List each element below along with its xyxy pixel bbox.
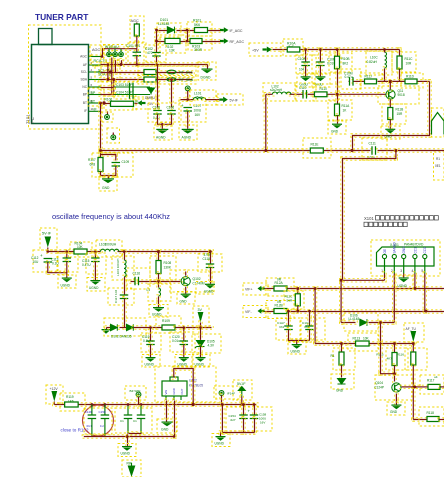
wire osc col a — [123, 250, 126, 262]
svg-text:C116: C116 — [133, 272, 141, 276]
box around R107 C109 — [92, 153, 133, 177]
box around edge port VIF — [434, 151, 444, 180]
svg-text:R1: R1 — [436, 157, 440, 161]
wire Q104 emitter right — [400, 385, 417, 388]
svg-text:AGC: AGC — [80, 54, 88, 58]
junction bottom rail U102pin — [173, 435, 176, 438]
box around C10M — [341, 69, 361, 89]
svg-text:VIF-: VIF- — [245, 310, 252, 314]
resistor R11J body — [365, 79, 377, 84]
tuner pin 8 (BT) — [89, 102, 101, 104]
svg-text:R12B: R12B — [275, 304, 284, 308]
junction Q104 row x394.5 — [393, 342, 396, 345]
wire TP3 to L101 row — [186, 89, 189, 101]
svg-text:OE: OE — [383, 249, 387, 254]
wire pin6 row — [99, 93, 116, 96]
svg-text:10R: 10R — [406, 62, 413, 66]
wire R101 to port — [201, 29, 222, 32]
selection box around tuner Z101 — [29, 25, 102, 129]
capacitor C110 body — [303, 90, 307, 99]
wire caps join circle rail — [127, 434, 129, 437]
svg-text:AGND: AGND — [182, 136, 192, 140]
box around SCL-TU SDA-TU labels — [95, 66, 120, 82]
wire osc rail a — [46, 250, 76, 253]
wire VIF- b — [286, 310, 444, 313]
wire C10A bottom — [304, 64, 307, 78]
transistor Q102 body — [181, 277, 190, 286]
tuner pin 6 (NC) — [89, 86, 101, 88]
svg-text:0R: 0R — [277, 300, 282, 304]
box around TP2 — [107, 128, 120, 143]
box around L102 osc — [96, 240, 122, 257]
wire pin4 SDA row — [99, 78, 194, 81]
svg-text:UGND: UGND — [215, 442, 225, 446]
diode D102 body — [148, 87, 155, 95]
wire X101 pin2 lead — [393, 272, 396, 324]
svg-text:C110: C110 — [299, 86, 307, 90]
wire AGC column — [136, 23, 138, 25]
sheet port IF OUT (house) — [432, 113, 444, 135]
capacitor C1C4 body — [305, 326, 314, 330]
box around C116 — [127, 268, 150, 289]
capacitor C154 body — [239, 415, 248, 419]
junction x156 y30 — [155, 29, 158, 32]
wire C121 C122 bottom join — [127, 432, 143, 435]
wire L10C bottom — [383, 67, 386, 83]
wire C1A7 bottom — [287, 328, 290, 342]
junction x187 y30 — [186, 29, 189, 32]
junction rail C10A — [304, 48, 307, 51]
wire R115 bottom — [393, 364, 396, 383]
junction pin1 vertical — [340, 279, 343, 282]
svg-text:GND: GND — [331, 130, 339, 134]
resistor R108 body — [156, 261, 161, 274]
wire R115 top — [393, 342, 396, 354]
svg-text:Q104: Q104 — [375, 381, 383, 385]
capacitor C115 body — [91, 258, 100, 262]
resistor R119 body — [65, 402, 79, 407]
junction C106 top — [170, 78, 173, 81]
box around R12B — [266, 301, 294, 319]
wire C119 top — [149, 326, 152, 342]
ground symbol Q102 — [181, 294, 191, 299]
wire pin7 row — [99, 102, 112, 105]
svg-text:R10B: R10B — [342, 57, 350, 61]
port VIF+ arrow — [258, 286, 265, 292]
wire R12C top — [296, 287, 299, 295]
svg-text:SDA: SDA — [80, 77, 87, 81]
svg-text:R109: R109 — [162, 319, 170, 323]
wire R12C bottom — [296, 304, 299, 313]
box around R11E — [303, 138, 331, 158]
box around ground U102 — [157, 419, 177, 433]
svg-text:SANSO: SANSO — [393, 242, 397, 254]
svg-text:DGND: DGND — [201, 76, 212, 80]
junction osc col x124 — [123, 250, 126, 253]
wire C113 bottom — [65, 260, 68, 279]
wire osc base row b — [137, 280, 160, 283]
tuner pin 5 (SDA) — [89, 79, 101, 81]
svg-text:C124P: C124P — [374, 386, 384, 390]
svg-text:130K: 130K — [164, 266, 172, 270]
ground symbol C1A7 — [292, 344, 302, 349]
box around resistor R101 — [187, 22, 212, 36]
port VIF- arrow — [258, 308, 265, 314]
junction maze x113.8 SDA — [112, 78, 115, 81]
box around port 5V-IF — [217, 94, 243, 105]
wire D106 row b — [367, 321, 396, 324]
wire pin2 row — [99, 63, 209, 66]
box around capacitor C101 — [128, 43, 146, 63]
ground symbol diode row — [102, 329, 111, 334]
box around capacitor C102 — [144, 45, 166, 62]
svg-text:GND: GND — [180, 300, 188, 304]
svg-text:GND: GND — [102, 186, 110, 190]
tuner pin 11 (IF) — [89, 110, 101, 112]
wire maze vertical x121 — [120, 59, 123, 67]
box around R119 — [60, 393, 85, 411]
wire diode row c — [132, 326, 163, 329]
inductor L101 body — [193, 98, 205, 100]
box around ground R11A — [328, 121, 346, 134]
capacitor C104 body — [130, 90, 134, 99]
tuner pin 3 (AF) — [89, 64, 101, 66]
junction C1C4 top — [308, 310, 311, 313]
svg-text:56R: 56R — [287, 299, 293, 303]
resistor R118 body — [427, 417, 439, 422]
connector X101 pin 3 circle — [402, 254, 406, 273]
capacitor C118 body — [206, 264, 215, 268]
box around L103 — [112, 256, 134, 280]
svg-text:AF_TU: AF_TU — [406, 327, 417, 331]
wire C115 bottom — [94, 260, 97, 282]
note X101 chinese line2 glyphs — [364, 222, 407, 226]
capacitor C106 body — [167, 111, 176, 115]
resistor R11A body — [335, 104, 340, 116]
resistor R12C body — [295, 294, 300, 306]
wire R114 top — [340, 342, 343, 354]
ground symbol C107 — [182, 129, 194, 134]
svg-text:0.82uH: 0.82uH — [367, 60, 378, 64]
wire U102 gnd pin — [165, 399, 168, 423]
diode D107 to ground — [338, 379, 346, 385]
resistor R104 body — [74, 249, 87, 254]
wire X101 pin4 lead — [413, 272, 416, 290]
capacitor C158 body — [250, 415, 259, 419]
svg-text:RF_SCL: RF_SCL — [179, 71, 193, 75]
box around C117 — [108, 288, 134, 305]
wire VIF+ b — [286, 287, 444, 290]
wire L104 top — [157, 280, 160, 289]
port RIF down arrow — [128, 466, 136, 477]
svg-text:LL4148: LL4148 — [158, 22, 169, 26]
diode D103 body — [111, 324, 118, 330]
svg-text:3: 3 — [400, 269, 402, 273]
box around ground C118 — [196, 282, 214, 295]
svg-text:C111: C111 — [369, 142, 377, 146]
resistor R113 body — [356, 341, 370, 346]
box around ground caps — [154, 125, 172, 140]
svg-text:AF: AF — [83, 63, 87, 67]
box around L10C — [366, 51, 392, 75]
svg-text:UGND: UGND — [291, 350, 301, 354]
svg-text:R116: R116 — [397, 353, 404, 357]
svg-text:C117 102: C117 102 — [114, 290, 118, 303]
junction C115 top — [94, 250, 97, 253]
port IF_AGC arrow — [220, 27, 229, 33]
tuner pin 1 (AGC) — [89, 56, 101, 58]
box around R104 — [70, 242, 92, 257]
box around ground R107 — [99, 176, 117, 191]
box around Q104 — [375, 375, 412, 400]
svg-text:BP: BP — [91, 91, 96, 95]
inductor W101 section 1 — [107, 49, 112, 57]
wire VIF+ a — [263, 287, 276, 290]
ground symbol C113 — [62, 278, 72, 283]
box around ground C115 — [87, 278, 105, 292]
wire C112 bottom — [46, 261, 49, 275]
svg-text:UGND: UGND — [121, 452, 131, 456]
box around D106 — [344, 313, 378, 331]
svg-text:C1: C1 — [133, 419, 137, 423]
svg-text:OUT: OUT — [180, 388, 184, 394]
wire R114 bottom — [340, 364, 343, 379]
lead C122 top — [140, 405, 142, 415]
box around 5V-IF port — [40, 228, 57, 250]
port 5V-IF arrow — [219, 97, 228, 103]
wire R10B top — [336, 48, 339, 58]
capacitor C1A7 body — [284, 326, 293, 330]
U102 bottom pin stubs — [166, 396, 181, 400]
box around D107 — [331, 374, 354, 389]
connector X101 pin 4 circle — [413, 254, 417, 273]
capacitor C150 body — [101, 415, 110, 419]
wire Q104 bottom — [395, 392, 398, 406]
svg-text:100U: 100U — [194, 109, 202, 113]
box around C119 — [141, 333, 161, 352]
wire C118 top — [209, 250, 212, 265]
lead C149 top — [91, 405, 93, 415]
svg-text:C1740M: C1740M — [193, 282, 205, 286]
svg-text:UGND: UGND — [61, 284, 71, 288]
svg-text:R113: R113 — [353, 337, 361, 341]
box around L102t — [263, 83, 296, 101]
svg-text:C10A: C10A — [298, 57, 307, 61]
box around C110 — [295, 83, 316, 101]
box around C105 C106 — [148, 103, 181, 122]
wire osc rail b — [86, 250, 102, 253]
svg-text:BP: BP — [83, 92, 87, 96]
wire VIF- a — [263, 310, 276, 313]
svg-text:CC1: CC1 — [413, 247, 417, 254]
wire R118 row — [412, 418, 430, 421]
tuner Z101 body — [32, 29, 89, 124]
box around Q102 — [170, 270, 212, 292]
wire bottom gnd stub — [126, 435, 129, 448]
svg-text:PAN4B7DVD: PAN4B7DVD — [404, 243, 424, 247]
wire AF_TU stem — [412, 343, 414, 344]
wire R106 to port — [135, 103, 138, 105]
test point TP3 circle — [185, 86, 190, 91]
box around ground C113 — [58, 275, 76, 288]
svg-text:R108: R108 — [164, 261, 172, 265]
svg-text:GND: GND — [172, 388, 176, 394]
svg-text:R11D: R11D — [406, 75, 415, 79]
svg-text:4K7: 4K7 — [386, 357, 392, 361]
wire vertical x341 low — [339, 279, 342, 325]
wire diode row a — [105, 326, 114, 329]
junction osc rail x47.8 — [46, 250, 49, 253]
ground symbol D105 — [196, 357, 206, 362]
capacitor C10F body — [316, 62, 325, 66]
svg-text:C118: C118 — [203, 257, 211, 261]
svg-text:10U: 10U — [33, 260, 40, 264]
wire TP4 stem — [137, 395, 140, 406]
lead C121 bottom — [127, 419, 129, 434]
svg-text:AGC: AGC — [92, 48, 100, 52]
capacitor C10A body — [301, 62, 310, 66]
resistor R11B body — [388, 108, 393, 120]
ground symbol R107 — [102, 178, 114, 183]
X101 pin rotated net names — [383, 242, 427, 254]
wire gnd stub dioderow — [106, 328, 108, 330]
svg-text:C101 471: C101 471 — [126, 44, 140, 48]
wire branch bottoms — [99, 170, 102, 177]
wire C1C4 top — [308, 310, 311, 327]
box around BP BT labels — [88, 88, 104, 106]
svg-text:R11B: R11B — [396, 108, 404, 112]
ground symbol U102 — [162, 422, 173, 427]
wire SCL tail down x154.5 — [156, 63, 159, 109]
junction base row osc — [157, 280, 160, 283]
box around R11D — [401, 73, 423, 88]
junction C154 top — [242, 403, 245, 406]
wire C120 bottom — [182, 343, 185, 359]
wire C105 C106 bottoms — [156, 113, 159, 126]
wire vertical x222.4 — [221, 403, 224, 434]
box around U102 — [155, 366, 216, 402]
wire C118 bottom — [209, 266, 212, 286]
resistor R102 body — [165, 38, 180, 43]
box around R117 — [420, 375, 444, 394]
box around ground C1A7 — [288, 342, 306, 355]
ground symbol Q104 — [391, 405, 401, 410]
wire osc col c — [123, 297, 126, 329]
wire 3V stem — [199, 321, 202, 329]
svg-text:331: 331 — [279, 325, 284, 329]
diode D104 body — [127, 324, 134, 330]
test point TP4 circle — [136, 392, 141, 397]
wire drop x395.9 — [394, 149, 397, 160]
tuner pin 7 (BP) — [89, 94, 101, 96]
wire bottom rail caps — [221, 431, 257, 434]
svg-text:L1: L1 — [147, 288, 151, 292]
box around C149 C150 — [84, 408, 112, 434]
wire diode row d — [174, 326, 213, 329]
resistor R111 body — [144, 70, 156, 75]
box around RCA-TU label — [91, 55, 118, 66]
junction C119 top — [149, 326, 152, 329]
junction rail L10C — [383, 48, 386, 51]
svg-text:C103 510P: C103 510P — [116, 83, 133, 87]
resistor R10A body — [287, 47, 300, 52]
box around L104 — [148, 284, 171, 301]
resistor R112 body — [144, 77, 156, 82]
box around TP5 — [214, 386, 240, 399]
wire circle bottom rail — [82, 435, 176, 438]
junction maze x110.5 SCL — [109, 70, 112, 73]
box around pin1 net cluster — [90, 45, 112, 62]
wire supply rail a — [53, 403, 67, 406]
ground symbol C10A — [301, 76, 311, 81]
junction x222.4 rail — [221, 403, 224, 406]
resistor R11C body — [397, 56, 402, 69]
wire C101 to row2 — [135, 54, 138, 66]
port AF_TU arrow — [410, 331, 416, 342]
wire L101 row left — [179, 98, 195, 101]
junction rail R10B — [336, 48, 339, 51]
svg-text:IF: IF — [84, 109, 87, 113]
wire R11A bottom — [336, 114, 339, 126]
svg-text:0.47u: 0.47u — [345, 75, 353, 79]
resistor R109 body — [162, 325, 175, 330]
svg-text:0.01u: 0.01u — [172, 339, 180, 343]
diode D101 body — [167, 27, 174, 34]
wire bus vertical x111.8 — [110, 56, 113, 96]
svg-text:AGND: AGND — [156, 136, 166, 140]
wire osc rail c — [116, 250, 214, 253]
wire L10C top — [384, 50, 386, 53]
junction C158 top — [253, 403, 256, 406]
svg-text:10K: 10K — [363, 337, 370, 341]
connector X101 pin 2 circle — [392, 254, 396, 273]
resistor R10B body — [335, 56, 340, 69]
wire R116 bottom — [412, 364, 415, 421]
wire Q102 collector — [184, 270, 187, 278]
svg-text:RF_SDA: RF_SDA — [179, 78, 194, 82]
capacitor C113 body — [63, 258, 72, 262]
svg-text:D106: D106 — [350, 314, 358, 318]
svg-text:oscillate frequency is about 4: oscillate frequency is about 440Khz — [52, 212, 170, 221]
svg-text:C104 510P: C104 510P — [116, 91, 133, 95]
box around +12V port — [46, 385, 63, 404]
junction C150 top — [104, 403, 107, 406]
resistor R110 body — [314, 92, 327, 97]
svg-text:1000UH: 1000UH — [105, 243, 117, 247]
box around VIF- port — [243, 306, 268, 318]
test point TP2 circle — [111, 135, 116, 140]
ground symbol C118 — [205, 284, 215, 289]
wire base row b — [288, 93, 305, 96]
junction C121 top — [127, 403, 130, 406]
svg-text:IF_AGC: IF_AGC — [230, 29, 243, 33]
wire TP2 stub — [112, 133, 114, 135]
junction C1A7 top — [287, 310, 290, 313]
box around C10F — [312, 55, 341, 73]
box around C1C4 — [301, 318, 325, 340]
junction VIF+ x415 — [414, 287, 417, 290]
wire L101 to port — [204, 98, 221, 101]
box around R112 SDA — [138, 76, 196, 85]
svg-text:DMRU: DMRU — [145, 96, 156, 100]
wire R117 tail — [439, 385, 444, 388]
svg-text:u4: u4 — [434, 375, 438, 379]
box around C1A7 — [276, 318, 300, 340]
box around ground D105 — [192, 355, 210, 368]
svg-text:VIF+: VIF+ — [245, 287, 253, 291]
wire R117 row — [413, 385, 429, 388]
svg-text:GND: GND — [402, 246, 406, 254]
